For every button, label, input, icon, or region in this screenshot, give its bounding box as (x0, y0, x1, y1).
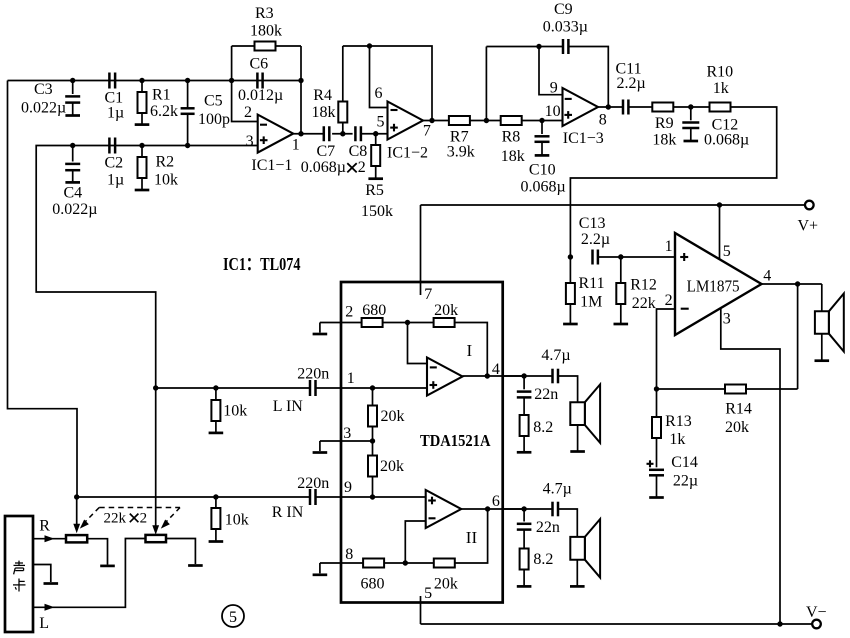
node: R2 tap on second rail (139, 143, 144, 148)
plus sign IC1-1 pin3 (260, 139, 268, 141)
svg-text:R IN: R IN (272, 504, 304, 521)
svg-text:9: 9 (550, 80, 558, 97)
svg-text:1k: 1k (713, 80, 729, 97)
ground (8.2 ch I) (517, 451, 532, 454)
ground (pin8) (319, 563, 321, 573)
svg-text:3: 3 (723, 311, 731, 328)
svg-text:20k: 20k (434, 302, 458, 319)
capacitor 22n ch II (523, 509, 525, 522)
svg-text:5: 5 (424, 585, 432, 602)
wire: section I output (463, 375, 525, 377)
svg-text:2: 2 (665, 292, 673, 309)
wire: divider mid segment (372, 427, 374, 456)
wire: R4 top run to IC1-2 output loop (343, 46, 432, 121)
wire: feedback loop right vertical down to IC1-1 output (300, 46, 302, 134)
svg-text:V+: V+ (798, 218, 819, 235)
wire: L IN line (156, 387, 310, 389)
label sound-card char sheng (14, 561, 26, 575)
wire: sound card ground stub (33, 565, 51, 583)
svg-text:L IN: L IN (273, 398, 304, 415)
svg-text:R8: R8 (502, 129, 521, 146)
wire: pin5 lead down to triangle (719, 205, 721, 259)
svg-text:R14: R14 (725, 401, 752, 418)
svg-text:4.7µ: 4.7µ (543, 481, 572, 498)
wire: R9 to R10 segment (673, 106, 709, 108)
resistor 8.2 ch II (520, 549, 529, 570)
plus sign (II) (428, 499, 436, 501)
resistor 10k (R input) (215, 497, 217, 508)
svg-text:IC1−3: IC1−3 (563, 130, 604, 147)
wire: ch II output line to 4.7u (503, 508, 553, 510)
wire: pin2 line (ch I feedback in) (320, 322, 362, 324)
node: pin9 branch on C9 loop (536, 44, 541, 49)
svg-text:180k: 180k (250, 23, 282, 40)
svg-text:R4: R4 (313, 87, 332, 104)
svg-text:8: 8 (345, 546, 353, 563)
ground (R5) (368, 177, 383, 180)
capacitor 22n ch I (523, 376, 525, 389)
wire: feedback bottom run (R14) (657, 388, 726, 390)
svg-text:20k: 20k (380, 458, 404, 475)
resistor 20k ch II feedback (434, 559, 455, 568)
ground (8.2 ch II) (517, 585, 532, 588)
node: R5 top tap (373, 131, 378, 136)
capacitor 4.7u ch II (551, 502, 554, 517)
potentiometer 22k (L, pot2) body (146, 535, 167, 542)
resistor R8 18k (501, 116, 522, 125)
svg-text:2.2µ: 2.2µ (581, 231, 610, 248)
wire: 22n to 8.2 ch I (523, 397, 525, 415)
wire: pin3 line (320, 440, 373, 442)
svg-text:20k: 20k (381, 408, 405, 425)
svg-text:R2: R2 (156, 154, 175, 171)
wire: pin8 line (ch II feedback in) (320, 562, 363, 564)
node: pin6 branch on feedback run (367, 43, 372, 48)
node: Sallen-Key node (R7/R8/C9) (484, 118, 489, 123)
svg-text:0.068µ: 0.068µ (301, 159, 346, 176)
ground (speaker 2) (570, 585, 585, 588)
svg-text:18k: 18k (652, 132, 676, 149)
svg-text:2: 2 (358, 159, 366, 176)
minus sign IC1-3 pin9 (565, 98, 572, 100)
svg-text:5: 5 (723, 243, 731, 260)
wire: L output lead to pot2 (33, 539, 146, 608)
svg-text:0.022µ: 0.022µ (21, 100, 66, 117)
svg-text:II: II (466, 528, 478, 547)
svg-text:IC1−1: IC1−1 (251, 157, 292, 174)
ground (10k R) (209, 540, 224, 543)
terminal V- (812, 620, 821, 629)
resistor R5 150k (375, 134, 377, 145)
wire: speaker 1 ground lead (577, 425, 579, 452)
op-amp IC1-3 (TL074 section 3) (563, 88, 599, 126)
node: 10k R tap (213, 494, 218, 499)
wire: R7 to R8 segment (470, 120, 501, 122)
svg-text:1: 1 (665, 238, 673, 255)
wire: pot2 wiper riser (155, 388, 157, 526)
node: R1 tap on top rail (139, 78, 144, 83)
speaker LS1 (ch I) (570, 402, 585, 425)
svg-text:2.2µ: 2.2µ (617, 75, 646, 92)
resistor R14 20k (725, 385, 746, 394)
wire: left border from top rail down to pot1 wiper column (8, 81, 78, 498)
annotation: dashed 22k x2 callout (99, 507, 180, 509)
ground (C10) (535, 154, 550, 157)
svg-text:150k: 150k (361, 203, 393, 220)
wire: pin1 line into section I (315, 387, 427, 389)
capacitor 4.7u ch I (551, 369, 554, 384)
svg-text:L: L (39, 615, 49, 632)
op-amp TDA1521A section I (427, 358, 463, 396)
svg-text:10k: 10k (154, 172, 178, 189)
svg-text:680: 680 (361, 576, 385, 593)
svg-text:220n: 220n (297, 366, 329, 383)
op-amp IC1-1 (TL074 section 1) (258, 115, 294, 153)
svg-text:C7: C7 (317, 143, 336, 160)
svg-text:0.033µ: 0.033µ (543, 19, 588, 36)
node: R IN source junction (74, 494, 79, 499)
wire: LM1875 output run (762, 283, 822, 285)
minus sign IC1-2 pin6 (391, 109, 398, 111)
minus sign IC1-1 pin2 (260, 124, 267, 126)
node: 20k divider top tap (370, 385, 375, 390)
wire: C8 to IC1-2 plus input, through R5 tap (361, 133, 388, 135)
arrow (pot2 wiper) (152, 525, 159, 535)
label sound-card char ka (13, 579, 26, 592)
arrow (L output) (45, 604, 55, 611)
capacitor 220n (R input) (309, 489, 312, 505)
wire: ch II minus input lead (405, 521, 425, 563)
capacitor C3 0.022u (72, 81, 74, 95)
wire: second rail (L-channel) y=145.5 with down-left feed (36, 146, 258, 389)
svg-text:R10: R10 (707, 64, 734, 81)
minus sign (II) (429, 517, 436, 519)
resistor 8.2 ch I (520, 415, 529, 436)
node: C12 tap (688, 104, 693, 109)
svg-text:6: 6 (492, 493, 500, 510)
wire: IC1-2 output run y=120.5 (423, 120, 449, 122)
wire: 22n to 8.2 ch II (523, 530, 525, 549)
svg-text:10k: 10k (225, 512, 249, 529)
svg-text:22k: 22k (632, 295, 656, 312)
wire: speaker 2 ground lead (576, 560, 578, 587)
svg-text:R: R (39, 518, 50, 535)
node: IC1-2 output / loop junction (429, 118, 434, 123)
svg-text:C9: C9 (554, 1, 573, 18)
resistor R12 22k (620, 257, 622, 283)
wire: pot2 right lead to ground (166, 539, 195, 565)
capacitor 220n (L input) (309, 380, 312, 396)
wire: C7 to C8 segment (332, 133, 353, 135)
ground (pin2) (319, 323, 321, 333)
svg-text:C6: C6 (250, 56, 269, 73)
wire: 20k to output rise ch II (455, 509, 488, 563)
plus sign LM1875 pin1 (680, 256, 688, 258)
capacitor C7 0.068u (323, 126, 326, 141)
plus sign (I) (430, 384, 438, 386)
resistor 10k (L input) (215, 388, 217, 400)
resistor 680 ch II (363, 559, 384, 568)
svg-text:C10: C10 (529, 162, 556, 179)
wire: pot1 right lead to ground (87, 539, 107, 565)
ground (C3) (65, 114, 80, 117)
svg-text:5: 5 (377, 114, 385, 131)
resistor 20k ch I feedback (434, 318, 455, 327)
node: ch II feedback node (403, 560, 408, 565)
arrow (dashed, to pot2) (161, 520, 170, 529)
wire: pin6 lead of IC1-2 (370, 46, 388, 108)
svg-text:R1: R1 (152, 87, 171, 104)
svg-text:9: 9 (344, 479, 352, 496)
wire: 20k to output drop ch I (455, 323, 488, 377)
resistor R3 180k (255, 42, 276, 51)
node: feedback loop left tap on top rail (229, 78, 234, 83)
capacitor C6 0.012u (in top rail) (256, 73, 259, 89)
ground (R1) (135, 123, 150, 126)
svg-text:I: I (467, 341, 473, 360)
wire: ch I output line to 4.7u (503, 375, 553, 377)
wire: C9 loop left vertical (485, 47, 487, 121)
capacitor C9 0.033u (562, 39, 565, 54)
capacitor C14 22u (electrolytic) (649, 469, 664, 472)
svg-text:8.2: 8.2 (533, 551, 553, 568)
node: C10 tap / pin10 (539, 118, 544, 123)
ground (pin3) (319, 441, 321, 451)
svg-text:LM1875: LM1875 (687, 277, 740, 296)
wire: feedback loop left vertical + pin2 lead of IC1-1 (232, 46, 258, 122)
node: pin3 tap (370, 438, 375, 443)
figure number 5 (circled) (222, 605, 244, 627)
svg-text:C5: C5 (204, 93, 223, 110)
svg-text:6.2k: 6.2k (150, 103, 178, 120)
svg-text:1M: 1M (580, 294, 602, 311)
potentiometer 22k (R, pot1) body (66, 535, 87, 542)
arrow (dashed, to pot1) (80, 520, 89, 529)
capacitor C8 0.068u (354, 126, 357, 141)
wire: speaker 3 feed (821, 284, 823, 311)
node: LM1875 output junction (795, 281, 800, 286)
svg-text:3: 3 (343, 425, 351, 442)
sound card box (5, 516, 33, 632)
node: ch I feedback node (405, 320, 410, 325)
minus sign LM1875 pin2 (681, 308, 689, 310)
node: IC1-1 output / loop junction (298, 131, 303, 136)
svg-text:C14: C14 (671, 454, 698, 471)
node: 22n tap ch II (521, 506, 526, 511)
node: pin3 column joins V- rail (777, 621, 782, 626)
node: top rail right end joins loop right vertical (298, 78, 303, 83)
svg-text:22µ: 22µ (673, 473, 698, 490)
capacitor C13 2.2u (591, 250, 594, 265)
wire: R8 to IC1-3 plus input (522, 120, 563, 122)
plus sign IC1-3 pin10 (564, 114, 572, 116)
svg-text:R9: R9 (655, 115, 674, 132)
svg-text:5: 5 (229, 609, 237, 626)
svg-text:C13: C13 (579, 215, 606, 232)
wire: output feedback drop (797, 284, 799, 389)
wire: IC1-1 output run to C7 (293, 133, 324, 135)
svg-text:C2: C2 (105, 155, 124, 172)
svg-text:4.7µ: 4.7µ (541, 347, 570, 364)
wire: section II output (461, 508, 524, 510)
speaker LS3 (LM1875 load) (815, 311, 829, 333)
svg-text:1: 1 (347, 370, 355, 387)
capacitor C12 0.068u (690, 107, 692, 120)
minus sign (I) (430, 366, 437, 368)
svg-text:1: 1 (292, 137, 300, 154)
arrow (pot1 wiper) (73, 524, 80, 534)
node: feedback node (R13/R14/pin2) (654, 386, 659, 391)
capacitor C5 100p (between rails) (187, 81, 189, 109)
svg-text:0.068µ: 0.068µ (704, 132, 749, 149)
node: L IN source junction (153, 385, 158, 390)
wire: pin5 stub to V- rail (420, 596, 422, 624)
arrow (R output) (45, 535, 55, 542)
resistor R7 3.9k (449, 116, 470, 125)
svg-text:18k: 18k (501, 148, 525, 165)
wire: top rail (R-channel) y=80.5 (8, 80, 302, 82)
svg-text:20k: 20k (434, 576, 458, 593)
ground (R11) (563, 323, 578, 326)
svg-text:18k: 18k (312, 104, 336, 121)
svg-text:C8: C8 (349, 143, 368, 160)
svg-text:0.012µ: 0.012µ (238, 87, 283, 104)
resistor 20k divider upper (372, 388, 374, 406)
ground (C14) (649, 496, 664, 499)
op-amp TDA1521A section II (426, 490, 462, 528)
ground (speaker 1) (570, 450, 585, 453)
wire: C11 to R9 (628, 106, 652, 108)
ground (10k L) (209, 432, 224, 435)
svg-text:R12: R12 (630, 277, 657, 294)
wire: C13 to LM1875 pin1 (598, 256, 675, 258)
capacitor C1 1u (in top rail) (108, 73, 111, 89)
wire: R3 feedback top run (232, 45, 301, 47)
svg-text:4: 4 (763, 268, 771, 285)
terminal V+ (805, 201, 814, 210)
svg-text:1µ: 1µ (107, 105, 124, 122)
svg-text:8: 8 (599, 111, 607, 128)
svg-text:2: 2 (140, 511, 148, 527)
wire: ch I minus input lead (408, 323, 428, 364)
node: ch I output inner junction (485, 373, 490, 378)
wire: 4.7u to speaker 1 (558, 376, 578, 402)
ground (C12) (684, 140, 699, 143)
svg-text:IC1：TL074: IC1：TL074 (223, 254, 301, 274)
resistor 20k divider lower (368, 456, 377, 477)
wire: R10 output drop-around to C13 node (570, 107, 776, 257)
ground (pot1) (100, 565, 115, 568)
op-amp IC1-2 (TL074 section 2) (388, 102, 424, 140)
svg-text:IC1−2: IC1−2 (387, 145, 428, 162)
ground (R2) (135, 189, 150, 192)
svg-text:1µ: 1µ (107, 172, 124, 189)
resistor R4 18k (IC1-2 feedback) (342, 123, 344, 134)
resistor R10 1k (710, 103, 731, 112)
svg-text:TDA1521A: TDA1521A (420, 431, 491, 450)
svg-text:20k: 20k (725, 419, 749, 436)
node: 10k L tap (213, 385, 218, 390)
wire: pin2 lead to feedback node (657, 309, 676, 389)
node: 22n tap ch I (521, 373, 526, 378)
resistor R1 6.2k (141, 81, 143, 93)
wire: pin9 line into section II (315, 496, 426, 498)
resistor R13 1k (656, 389, 658, 417)
wire: divider bottom segment (372, 477, 374, 498)
ground (sound card) (44, 582, 59, 585)
svg-text:220n: 220n (297, 475, 329, 492)
svg-text:0.022µ: 0.022µ (52, 201, 97, 218)
svg-text:2: 2 (345, 304, 353, 321)
node: C3 tap on top rail (70, 78, 75, 83)
svg-text:6: 6 (375, 85, 383, 102)
resistor R2 10k (141, 146, 143, 158)
op-amp U2 LM1875 power amplifier (675, 233, 762, 335)
wire: 680 to 20k ch II (384, 562, 434, 564)
ground (C4) (65, 181, 80, 184)
wire: pin9 lead of IC1-3 (539, 47, 563, 95)
svg-text:C3: C3 (34, 81, 53, 98)
wire: V- rail (421, 623, 813, 625)
wire: pin3 lead to V- column (721, 308, 780, 624)
node: C13 left junction (R11 top) (568, 254, 573, 259)
IC U3 TDA1521A outline box (341, 282, 503, 603)
svg-text:100p: 100p (198, 111, 230, 128)
svg-text:680: 680 (362, 302, 386, 319)
plus sign IC1-2 pin5 (390, 127, 398, 129)
speaker LS2 (ch II) (570, 537, 585, 560)
svg-text:22n: 22n (534, 386, 558, 403)
capacitor C10 0.068u (541, 121, 543, 135)
svg-text:8.2: 8.2 (533, 419, 553, 436)
wire: R IN line (77, 496, 310, 498)
wire: pot1 wiper riser (76, 497, 78, 525)
capacitor C2 1u (in second rail) (108, 138, 111, 154)
wire: R output lead (33, 538, 66, 540)
capacitor C4 0.022u (72, 146, 74, 162)
node: R4 bottom tap (C7/C8 junction) (340, 131, 345, 136)
svg-text:1k: 1k (669, 431, 685, 448)
polarity plus (C14) (647, 463, 654, 465)
node: ch II output inner junction (485, 506, 490, 511)
svg-text:10k: 10k (223, 403, 247, 420)
svg-text:R5: R5 (365, 182, 384, 199)
node: R12 top tap (618, 254, 623, 259)
wire: 680 to 20k ch I (383, 322, 434, 324)
wire: C9 to loop right vertical down to IC1-3 output (568, 47, 608, 108)
ground (pot2) (188, 564, 203, 567)
svg-text:7: 7 (423, 123, 431, 140)
svg-text:0.068µ: 0.068µ (521, 179, 566, 196)
svg-text:22n: 22n (536, 519, 560, 536)
ground (speaker 3) (815, 359, 830, 362)
svg-text:22k: 22k (104, 511, 127, 527)
node: C5 top tap (185, 78, 190, 83)
wire: C9 loop top run (486, 46, 563, 48)
resistor R11 1M (569, 257, 571, 283)
svg-text:V−: V− (806, 604, 827, 621)
svg-text:R3: R3 (255, 5, 274, 22)
node: IC1-3 output / C9 loop junction (606, 104, 611, 109)
svg-text:C4: C4 (64, 185, 83, 202)
wire: 4.7u to speaker 2 (558, 509, 577, 537)
svg-text:3.9k: 3.9k (447, 144, 475, 161)
svg-text:7: 7 (424, 286, 432, 303)
svg-text:2: 2 (244, 104, 252, 121)
wire: IC1-3 output run to C11 (598, 106, 623, 108)
node: LM1875 pin5 tap on V+ rail (717, 202, 722, 207)
wire: speaker 3 ground lead (821, 334, 823, 361)
